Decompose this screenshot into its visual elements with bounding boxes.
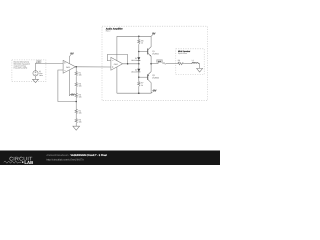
svg-text:Freq 20Hz-20kHz: Freq 20Hz-20kHz (14, 66, 28, 69)
svg-text:1k: 1k (141, 42, 143, 45)
wire OA1 V+ pin (68, 57, 70, 64)
power flag -9V (rail) (151, 90, 156, 94)
junction Q1 base node (138, 51, 140, 53)
resistor R5 (75, 119, 82, 124)
wire output node (151, 63, 158, 65)
svg-text:1N4148: 1N4148 (131, 70, 137, 73)
diode D1 1N4148 (131, 57, 140, 64)
wire OA2 V+ to rail (116, 36, 118, 60)
ground (microphone) (33, 79, 39, 82)
wire output to R1 (75, 67, 77, 72)
power flag -9V (OA1 V-) (69, 93, 74, 96)
wire out to speaker (165, 63, 178, 65)
svg-text:AnimeshVasudevan : VASUDEVAN C: AnimeshVasudevan : VASUDEVAN Circuit 7 -… (46, 154, 107, 157)
svg-text:1k: 1k (141, 84, 143, 87)
svg-text:-9V: -9V (152, 90, 156, 93)
svg-text:Mini Speaker: Mini Speaker (178, 50, 191, 53)
net flag out (speaker side) (162, 62, 165, 64)
wire OA2 feedback loop (107, 55, 127, 64)
svg-text:2N3904: 2N3904 (152, 52, 159, 55)
junction diode midpoint / OA2 out (138, 63, 140, 65)
junction OA1 output node (75, 66, 77, 68)
microphone section note text (14, 61, 31, 70)
svg-text:LAB: LAB (24, 160, 33, 165)
junction feedback tap node (75, 101, 77, 103)
resistor R1 (75, 72, 82, 77)
svg-text:Rev 2: Rev 2 (106, 30, 111, 33)
svg-text:10k: 10k (79, 85, 82, 88)
wire base node to D1 (138, 52, 140, 58)
voltage source V1 (33, 71, 38, 76)
diode D2 1N4148 (131, 64, 140, 77)
resistor R3 (75, 93, 82, 98)
svg-text:10k: 10k (79, 121, 82, 124)
junction push-pull output node (150, 63, 152, 65)
wire Q2 base (139, 76, 148, 78)
wire below R4 (75, 114, 77, 119)
op-amp OA2 (111, 57, 123, 70)
wire OA1 V- pin (68, 70, 70, 96)
ground (resistor chain) (73, 126, 80, 130)
svg-text:9V: 9V (152, 33, 155, 36)
junction R7 / negative rail (138, 92, 140, 94)
wire below R5 (75, 123, 77, 126)
svg-text:10k: 10k (79, 95, 82, 98)
power flag 9V (OA1 V+) (69, 53, 74, 57)
CircuitLab logo (4, 156, 34, 165)
svg-text:10k: 10k (79, 111, 82, 114)
wire V1 to ground (35, 76, 37, 79)
amplifier section title (106, 28, 123, 33)
wire OA2 output (123, 63, 139, 65)
V1 value label (39, 70, 43, 77)
svg-text:10k: 10k (79, 74, 82, 77)
wire negative supply rail (117, 92, 151, 94)
svg-text:-9V: -9V (70, 93, 74, 96)
svg-text:1kHz: 1kHz (39, 74, 43, 77)
resistor R4 (75, 109, 82, 114)
svg-text:9V: 9V (70, 53, 73, 56)
transistor Q2 2N3906 (PNP) (148, 64, 159, 93)
junction feedback/output (127, 63, 129, 65)
wire positive supply rail (117, 35, 151, 37)
transistor Q1 2N3904 (NPN) (148, 36, 159, 63)
microphone section dashed box (12, 60, 46, 82)
resistor R6 (138, 36, 144, 51)
power flag 9V (rail) (151, 33, 156, 37)
inductor L1 (192, 59, 199, 64)
speaker section title (178, 50, 191, 55)
op-amp OA1 (63, 60, 75, 73)
amplifier section dashed box (102, 26, 207, 101)
wire V1 to OA1 + input (36, 64, 64, 71)
svg-text:in: in (38, 60, 40, 63)
svg-text:1N4148: 1N4148 (131, 59, 137, 62)
wire below R2 (75, 87, 77, 93)
speaker section dashed box (176, 49, 204, 75)
ground (speaker) (197, 68, 203, 72)
wire below R3 (75, 98, 77, 109)
wire L1 to ground (198, 64, 199, 69)
wire OA1 output (76, 66, 111, 68)
svg-text:2N3906: 2N3906 (152, 76, 159, 79)
wire R8 to L1 (184, 63, 192, 65)
svg-text:10m: 10m (192, 61, 196, 64)
wire below R1 (75, 76, 77, 82)
resistor R8 (178, 59, 185, 65)
wire OA1 inverting input feedback (58, 70, 76, 102)
wire OA2 V- to bottom rail (116, 67, 118, 93)
svg-text:http://circuitlab.com/c/2mn290: http://circuitlab.com/c/2mn29027e (46, 159, 84, 162)
svg-text:out: out (158, 60, 161, 63)
footer title text (46, 154, 107, 162)
junction Q2 base node (138, 76, 140, 78)
resistor R7 (138, 77, 144, 93)
footer bar (0, 151, 220, 166)
node flag in (net label at V1 output) (36, 60, 42, 64)
resistor R2 (75, 83, 82, 88)
wire Q1 base (139, 51, 148, 53)
net flag out (amplifier side) (156, 60, 162, 64)
junction rail/R6 (138, 36, 140, 38)
